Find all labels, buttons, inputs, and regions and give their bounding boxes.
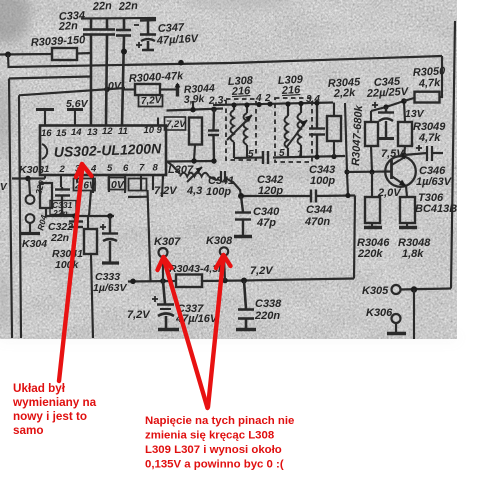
svg-text:216: 216 bbox=[231, 85, 252, 98]
svg-text:0V: 0V bbox=[108, 80, 122, 92]
wire pin1 to left edge bbox=[12, 177, 45, 179]
node junction left bbox=[5, 52, 11, 58]
wire base bbox=[347, 170, 391, 173]
svg-text:13: 13 bbox=[87, 127, 98, 138]
capacitor 22n second bbox=[99, 19, 115, 126]
node 7,2V C338 bbox=[241, 278, 247, 284]
capacitor C346 series bbox=[404, 146, 443, 161]
wire 13V rail bbox=[371, 101, 404, 111]
svg-text:47µ/16V: 47µ/16V bbox=[156, 33, 200, 47]
terminal K304 circle bbox=[26, 214, 35, 223]
node K307 bottom bbox=[160, 278, 166, 284]
capacitor C345 electrolytic bbox=[378, 107, 394, 139]
resistor R3045 bbox=[327, 116, 341, 141]
svg-text:L309 L307 i wynosi około: L309 L307 i wynosi około bbox=[145, 444, 282, 456]
ground under C340 bbox=[234, 235, 252, 238]
svg-text:22n: 22n bbox=[50, 232, 69, 244]
svg-text:2,6V: 2,6V bbox=[74, 181, 97, 192]
voltage box 0V bbox=[109, 178, 126, 190]
svg-text:120p: 120p bbox=[258, 185, 283, 197]
svg-text:8: 8 bbox=[153, 163, 159, 174]
svg-text:13V: 13V bbox=[405, 108, 425, 120]
capacitor 22n third bbox=[116, 19, 131, 126]
ground under K304 bbox=[29, 223, 31, 233]
svg-text:K303: K303 bbox=[19, 164, 44, 176]
capacitor C347 electrolytic bbox=[140, 19, 156, 51]
svg-text:22n: 22n bbox=[92, 0, 113, 13]
resistor R3041 bbox=[87, 216, 89, 229]
svg-text:wymieniany na: wymieniany na bbox=[12, 396, 97, 409]
node base R3046 bbox=[369, 169, 374, 174]
node pin1 wire bbox=[25, 176, 31, 182]
svg-text:7,2V: 7,2V bbox=[154, 185, 178, 197]
IC notch bbox=[42, 144, 47, 159]
capacitor C334 bbox=[83, 19, 99, 126]
svg-text:1: 1 bbox=[297, 149, 303, 160]
capacitor C337 electrolytic bbox=[157, 281, 174, 329]
L309 primary coil bbox=[285, 116, 289, 148]
IC U302 box bbox=[40, 126, 166, 176]
node mid bus left bbox=[238, 193, 244, 199]
transformer bottom wire bbox=[234, 156, 263, 159]
node L309 pins bbox=[285, 101, 290, 106]
node C322 bbox=[72, 213, 78, 219]
capacitor C322 bbox=[69, 216, 83, 232]
node R3044 on bus bbox=[178, 60, 184, 66]
node collector bbox=[401, 152, 406, 157]
capacitor C344 series bbox=[311, 190, 316, 203]
svg-text:220k: 220k bbox=[357, 248, 383, 260]
svg-text:5,6V: 5,6V bbox=[66, 98, 89, 110]
node cap3 junction bbox=[121, 49, 127, 55]
scanned paper area bbox=[0, 0, 457, 339]
wire bottom bus right segment bbox=[202, 279, 354, 282]
ground under R3048 bbox=[399, 226, 417, 229]
test point R3044 bar bbox=[176, 84, 179, 97]
wire long top bus to box corner bbox=[8, 55, 442, 68]
wire K305 node down bbox=[413, 290, 415, 340]
node bus left bbox=[130, 279, 136, 285]
node C343 bottom bbox=[314, 154, 319, 159]
capacitor C341 bbox=[209, 171, 241, 196]
node feed R bbox=[190, 107, 195, 112]
svg-text:9: 9 bbox=[157, 125, 163, 136]
L309 dashed box bbox=[275, 98, 312, 162]
7,2V box right of IC top bbox=[165, 117, 186, 130]
red arrow to K307 bbox=[164, 258, 208, 408]
terminal K306 circle bbox=[392, 314, 401, 323]
svg-text:12: 12 bbox=[102, 126, 113, 137]
node 13V bbox=[401, 98, 407, 104]
svg-text:3,9k: 3,9k bbox=[184, 93, 206, 106]
terminal K305 circle bbox=[392, 285, 401, 294]
resistor R3043 bbox=[176, 275, 202, 288]
svg-text:nowy i jest to: nowy i jest to bbox=[13, 410, 87, 423]
red arrow to IC pin 3 bbox=[59, 166, 83, 381]
capacitor C342 series bbox=[263, 151, 268, 164]
svg-text:100p: 100p bbox=[206, 186, 231, 198]
node feed C bbox=[211, 107, 216, 112]
terminal K307 circle bbox=[159, 248, 168, 257]
svg-text:7,2V: 7,2V bbox=[141, 95, 163, 107]
node C333 top bbox=[107, 213, 113, 219]
wire pin8 down to bottom bus bbox=[148, 190, 151, 281]
capacitor C333 electrolytic bbox=[102, 216, 118, 262]
wire box top stub bbox=[9, 77, 90, 79]
svg-text:C344: C344 bbox=[306, 204, 332, 216]
node inner top cap2 bbox=[104, 87, 110, 93]
svg-text:1µ/63V: 1µ/63V bbox=[93, 282, 127, 294]
L308 secondary coil bbox=[244, 113, 248, 145]
wire L307 row bbox=[167, 160, 214, 163]
resistor mid box bbox=[189, 118, 202, 145]
svg-text:0V: 0V bbox=[111, 179, 125, 191]
L309 secondary coil bbox=[298, 113, 302, 145]
capacitor mid small bbox=[208, 109, 219, 161]
svg-text:6: 6 bbox=[123, 163, 129, 174]
terminal K303 circle bbox=[26, 195, 35, 204]
capacitor C331 bbox=[55, 187, 70, 216]
svg-text:10: 10 bbox=[144, 125, 155, 136]
capacitor C343 bbox=[309, 103, 325, 157]
L309 tuning arrow bbox=[286, 120, 307, 148]
resistor R3046 box bbox=[365, 197, 380, 223]
svg-text:K308: K308 bbox=[206, 235, 233, 247]
polarity minus C347 bbox=[134, 24, 139, 26]
svg-text:22µ/25V: 22µ/25V bbox=[366, 86, 410, 100]
svg-text:BC413B: BC413B bbox=[415, 203, 457, 215]
svg-text:22n: 22n bbox=[118, 0, 139, 13]
svg-text:1: 1 bbox=[44, 164, 49, 175]
node mid bus right bbox=[345, 193, 350, 198]
svg-text:0,135V a powinno byc 0 :(: 0,135V a powinno byc 0 :( bbox=[145, 459, 284, 471]
node K308 bottom bbox=[222, 278, 228, 284]
resistor R3040 box bbox=[135, 84, 160, 95]
svg-text:2: 2 bbox=[59, 164, 66, 175]
boxed label C331 bbox=[50, 201, 76, 215]
transistor T306 bbox=[385, 156, 416, 187]
svg-text:7,5V: 7,5V bbox=[381, 148, 405, 160]
voltage box 7,2V under R3040 bbox=[139, 95, 163, 107]
svg-text:470n: 470n bbox=[304, 216, 330, 228]
svg-text:K306: K306 bbox=[366, 307, 393, 319]
svg-text:samo: samo bbox=[13, 424, 44, 437]
terminal K308 circle bbox=[220, 247, 228, 255]
svg-text:5: 5 bbox=[107, 163, 113, 174]
capacitor C340 bbox=[235, 196, 251, 236]
svg-text:22n: 22n bbox=[52, 208, 68, 218]
voltage box 2,6V bbox=[74, 179, 96, 191]
svg-text:1,8k: 1,8k bbox=[402, 248, 424, 260]
capacitor C338 bbox=[238, 281, 254, 330]
ground under C338 bbox=[236, 328, 256, 331]
svg-text:3,4: 3,4 bbox=[306, 94, 320, 105]
polarity plus C337 bbox=[152, 296, 158, 302]
red arrow to K308 bbox=[208, 256, 224, 407]
svg-text:2,3-: 2,3- bbox=[208, 94, 228, 107]
wire bottom bus left segment bbox=[128, 280, 176, 283]
ground under R3046 bbox=[364, 226, 382, 229]
svg-text:220n: 220n bbox=[254, 310, 280, 322]
resistor R3047 box bbox=[365, 122, 378, 146]
resistor R3050 box bbox=[415, 92, 440, 103]
node base top bbox=[344, 169, 349, 174]
wire inner box top bbox=[19, 88, 125, 95]
wire R3047 net vertical bbox=[345, 103, 348, 196]
svg-text:22n: 22n bbox=[58, 20, 79, 33]
wire left vertical B box edge bbox=[19, 95, 21, 338]
svg-text:5: 5 bbox=[279, 148, 285, 159]
svg-text:2: 2 bbox=[264, 93, 271, 104]
wire down to 7,2V bus bbox=[354, 196, 355, 279]
wire feed right of IC bbox=[167, 109, 224, 111]
transformer top wire bbox=[213, 103, 333, 106]
L307 tuning arrow bbox=[187, 167, 202, 182]
wire K305 to border bbox=[400, 289, 451, 290]
svg-text:100k: 100k bbox=[55, 259, 80, 271]
svg-text:C338: C338 bbox=[255, 298, 282, 310]
svg-text:7,2V: 7,2V bbox=[127, 309, 151, 321]
svg-text:2,2k: 2,2k bbox=[333, 87, 357, 100]
polarity plus C333 bbox=[100, 224, 106, 230]
svg-text:7: 7 bbox=[139, 163, 145, 174]
svg-text:100p: 100p bbox=[310, 175, 335, 187]
svg-text:Napięcie na tych pinach nie: Napięcie na tych pinach nie bbox=[145, 415, 294, 427]
wire left vertical A bbox=[9, 79, 12, 339]
node K305 bbox=[411, 286, 417, 292]
svg-text:4: 4 bbox=[255, 93, 262, 104]
svg-text:47p: 47p bbox=[256, 217, 276, 229]
svg-text:K304: K304 bbox=[22, 238, 47, 250]
svg-text:7,2V: 7,2V bbox=[166, 119, 186, 130]
voltage box empty bbox=[129, 179, 147, 191]
L308 primary coil bbox=[231, 110, 235, 142]
wire pin4 to under-IC bus bbox=[89, 191, 91, 217]
wire under-IC bus bbox=[62, 215, 114, 217]
svg-text:Układ był: Układ był bbox=[13, 382, 66, 395]
polarity plus C346 bbox=[416, 145, 422, 151]
ground under C337 bbox=[158, 328, 179, 331]
resistor under pin1 bbox=[40, 183, 52, 208]
wire mid bus bbox=[241, 195, 310, 197]
svg-text:216: 216 bbox=[281, 84, 302, 97]
resistor R3049 box bbox=[398, 122, 412, 146]
resistor R3039 bbox=[52, 48, 77, 60]
polarity plus C347 bbox=[136, 42, 142, 48]
ground under K306 bbox=[387, 332, 406, 335]
svg-text:L307: L307 bbox=[168, 164, 194, 176]
svg-text:4,7k: 4,7k bbox=[418, 77, 442, 90]
svg-text:14: 14 bbox=[71, 127, 82, 138]
svg-text:11: 11 bbox=[118, 126, 128, 137]
wire top-left horizontal through R3039 bbox=[0, 53, 52, 56]
ground under C333 bbox=[102, 261, 119, 264]
L308 dashed box bbox=[226, 99, 256, 160]
wire top capacitor bus bbox=[81, 17, 156, 20]
svg-text:16: 16 bbox=[41, 128, 52, 139]
right border line bbox=[451, 21, 455, 289]
svg-text:2,0V: 2,0V bbox=[377, 187, 402, 199]
svg-text:5: 5 bbox=[248, 149, 254, 160]
svg-text:zmienia się kręcąc L308: zmienia się kręcąc L308 bbox=[145, 430, 274, 442]
svg-text:4,7k: 4,7k bbox=[418, 132, 441, 144]
node L308 pins bbox=[231, 102, 236, 107]
polarity plus C345 bbox=[372, 102, 378, 108]
L308 tuning arrow bbox=[227, 115, 252, 140]
resistor R3048 box bbox=[400, 197, 415, 223]
svg-text:7,2V: 7,2V bbox=[250, 265, 274, 277]
node C343 top bbox=[314, 100, 319, 105]
svg-text:15: 15 bbox=[56, 128, 67, 139]
rail bar 5,6V above pin14 bbox=[67, 108, 83, 111]
IC bottom pin stubs bbox=[44, 175, 46, 179]
svg-text:K305: K305 bbox=[362, 285, 389, 297]
svg-text:1µ/63V: 1µ/63V bbox=[416, 176, 453, 188]
inductor L307 coil bbox=[180, 173, 209, 177]
svg-text:4,3: 4,3 bbox=[186, 185, 202, 197]
rail bar above pin16 bbox=[36, 108, 54, 111]
svg-text:K307: K307 bbox=[154, 236, 181, 248]
